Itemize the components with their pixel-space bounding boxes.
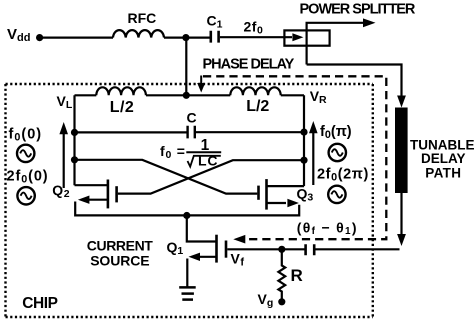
- formula f0 = 1/sqrt(LC): [160, 137, 221, 169]
- chip boundary CHIP (dotted): [6, 84, 373, 317]
- capacitor feedback (on Vf wire): [306, 244, 315, 255]
- transistor Q1 (current source): [167, 216, 227, 288]
- wire node A down to tank top: [185, 38, 187, 96]
- arrow VL sense (up): [59, 122, 68, 188]
- node top-center junction: [183, 92, 190, 99]
- node right rail / coupling wire: [300, 157, 307, 164]
- svg-text:R: R: [291, 266, 303, 285]
- transistor Q3: [186, 179, 313, 215]
- inductor L/2 left: [96, 87, 146, 116]
- svg-text:f0 =: f0 =: [160, 143, 186, 161]
- wire Vf (Q1 gate line): [227, 249, 399, 268]
- arrow VR sense (up): [309, 121, 318, 185]
- phase delay dashed feedback path with arrow and label: [203, 76, 386, 243]
- svg-text:L/2: L/2: [246, 98, 269, 115]
- svg-text:POWER SPLITTER: POWER SPLITTER: [300, 2, 416, 18]
- svg-text:C: C: [187, 110, 197, 126]
- wire cross-coupling: left tank to Q3 gate: [75, 160, 258, 194]
- svg-text:PHASE DELAY: PHASE DELAY: [203, 56, 295, 72]
- node right rail / C wire: [300, 129, 307, 136]
- source 2f0(2pi) AC symbol: [328, 186, 345, 203]
- inductor RFC: [113, 10, 164, 38]
- node left rail / coupling wire: [71, 156, 78, 163]
- wire left rail: [73, 95, 75, 185]
- resistor R: [278, 249, 302, 301]
- svg-text:f0(π): f0(π): [320, 124, 352, 141]
- wire delay path down to Vf node (arrow): [397, 193, 406, 246]
- capacitor C1: [207, 12, 223, 42]
- svg-text:1: 1: [201, 137, 210, 154]
- phase delay label and pointer arrow: [197, 56, 294, 92]
- splitter output arrow (top, to measurement): [307, 18, 376, 64]
- svg-text:DELAY: DELAY: [421, 151, 466, 166]
- wire RFC to node A: [164, 36, 210, 38]
- node Vf/R junction: [278, 246, 285, 253]
- transistor Q2: [52, 180, 186, 216]
- capacitor C with wire: [75, 110, 305, 139]
- svg-text:2f0(2π): 2f0(2π): [317, 167, 369, 184]
- node Vg: [258, 291, 286, 309]
- tank top wire: [75, 94, 305, 96]
- svg-text:f0(0): f0(0): [9, 127, 43, 144]
- node Vdd: [7, 26, 43, 44]
- svg-text:SOURCE: SOURCE: [90, 252, 149, 268]
- wire C1 to power splitter, label 2f0: [220, 19, 292, 38]
- svg-text:2f0(0): 2f0(0): [7, 168, 49, 185]
- power splitter box with input arrow: [284, 2, 416, 46]
- node tail junction: [183, 212, 190, 219]
- source 2f0(0) AC symbol: [17, 187, 34, 204]
- inductor L/2 right: [230, 87, 280, 115]
- wire cross-coupling: right tank to Q2 gate: [118, 160, 304, 193]
- node left rail / C wire: [71, 129, 78, 136]
- wire splitter to tunable delay path: [307, 65, 406, 108]
- svg-text:L/2: L/2: [110, 99, 134, 116]
- source f0(pi) AC symbol: [329, 144, 346, 161]
- node A junction (RFC / C1 / tank): [182, 34, 189, 41]
- ground: [179, 287, 196, 299]
- source f0(0) AC symbol: [17, 145, 34, 162]
- svg-text:PATH: PATH: [425, 166, 461, 181]
- svg-text:RFC: RFC: [128, 10, 157, 26]
- wire right rail: [303, 95, 305, 186]
- svg-text:CURRENT: CURRENT: [87, 237, 153, 253]
- svg-text:CHIP: CHIP: [22, 295, 57, 312]
- tunable delay path (black block): [395, 108, 474, 194]
- wire Vdd to RFC: [40, 36, 113, 38]
